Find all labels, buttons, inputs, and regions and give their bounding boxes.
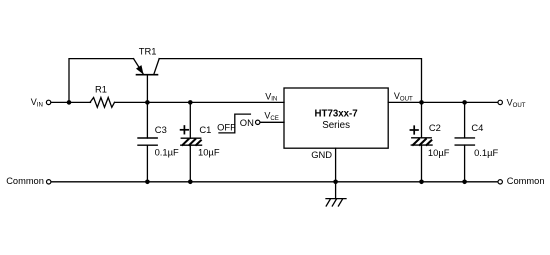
switch VCE terminal xyxy=(256,120,260,124)
transistor TR1 emitter arrow xyxy=(137,66,143,74)
switch step symbol xyxy=(219,114,250,133)
node GND junction xyxy=(333,180,338,185)
capacitor C2 lead to common rail xyxy=(421,145,423,182)
capacitor C4 lead to common rail xyxy=(464,145,466,182)
transistor TR1 base wire down to node B xyxy=(146,75,148,103)
node D junction xyxy=(419,100,424,105)
wire VCE terminal to IC xyxy=(260,121,284,123)
capacitor C3 bottom plate xyxy=(138,144,157,146)
ground symbol xyxy=(326,199,346,206)
svg-text:10µF: 10µF xyxy=(428,147,450,158)
terminal VOUT xyxy=(498,100,502,104)
wire node A up to top rail xyxy=(69,59,134,103)
capacitor C3 lead down from node B xyxy=(146,102,148,138)
svg-text:ON: ON xyxy=(240,117,254,128)
capacitor C2 plus sign xyxy=(410,126,418,134)
terminal Common right xyxy=(498,180,502,184)
capacitor C1 top plate xyxy=(181,137,200,139)
svg-text:HT73xx-7: HT73xx-7 xyxy=(315,109,358,120)
svg-text:R1: R1 xyxy=(95,84,107,95)
capacitor C2 hatched bottom plate xyxy=(411,139,432,145)
node B junction xyxy=(145,100,150,105)
wire node B to node C xyxy=(147,101,190,103)
node A junction xyxy=(67,100,72,105)
svg-text:OFF: OFF xyxy=(217,121,236,132)
wire IC VOUT pin to node D xyxy=(388,101,421,103)
node C junction xyxy=(188,100,193,105)
capacitor C4 lead down from node E xyxy=(464,102,466,137)
terminal VIN xyxy=(46,100,50,104)
svg-text:TR1: TR1 xyxy=(139,46,157,57)
IC GND pin wire xyxy=(335,148,337,182)
wire TR1 collector along top to node D xyxy=(159,59,421,103)
svg-text:Series: Series xyxy=(322,120,350,131)
capacitor C1 lead down from node C xyxy=(189,102,191,138)
common rail wire xyxy=(51,181,498,183)
svg-text:GND: GND xyxy=(311,149,332,160)
capacitor C2 lead down from node D xyxy=(421,102,423,137)
wire node E to VOUT terminal xyxy=(465,101,498,103)
capacitor C3 lead to common rail xyxy=(146,145,148,182)
svg-text:0.1µF: 0.1µF xyxy=(155,147,179,158)
transistor TR1 base bar xyxy=(137,74,158,76)
terminal Common left xyxy=(47,180,51,184)
svg-text:C3: C3 xyxy=(155,124,167,135)
node D2 junction on common rail xyxy=(419,180,424,185)
node E junction xyxy=(462,100,467,105)
capacitor C3 top plate xyxy=(138,137,157,139)
capacitor C4 top plate xyxy=(455,137,474,139)
wire GND node to ground symbol xyxy=(335,182,337,199)
capacitor C2 top plate xyxy=(412,137,431,139)
wire VIN terminal to node A xyxy=(51,101,69,103)
resistor R1 xyxy=(90,98,115,108)
svg-text:C2: C2 xyxy=(429,122,441,133)
node B2 junction on common rail xyxy=(145,180,150,185)
transistor TR1 collector xyxy=(154,59,160,75)
svg-text:10µF: 10µF xyxy=(198,147,220,158)
svg-text:C4: C4 xyxy=(471,122,483,133)
svg-text:Common: Common xyxy=(6,176,44,186)
svg-text:Common: Common xyxy=(507,176,545,186)
capacitor C1 plus sign xyxy=(181,126,189,134)
capacitor C1 hatched bottom plate xyxy=(181,139,202,145)
node E2 junction on common rail xyxy=(462,180,467,185)
wire R1 to node B xyxy=(115,101,148,103)
svg-text:C1: C1 xyxy=(199,124,211,135)
IC U1 HT73xx-7 box xyxy=(284,88,388,148)
capacitor C4 bottom plate xyxy=(455,144,474,146)
node C2j junction on common rail xyxy=(188,180,193,185)
transistor TR1 emitter xyxy=(134,59,144,74)
wire node C to IC VIN pin xyxy=(190,101,284,103)
svg-text:0.1µF: 0.1µF xyxy=(474,147,498,158)
capacitor C1 lead to common rail xyxy=(189,145,191,182)
wire node D to node E xyxy=(422,101,465,103)
wire node A to R1 xyxy=(69,101,91,103)
